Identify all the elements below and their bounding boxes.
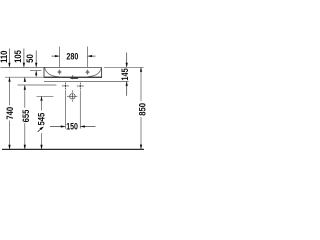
svg-text:105: 105	[13, 50, 24, 63]
svg-text:740: 740	[4, 107, 15, 120]
svg-text:110: 110	[0, 50, 9, 63]
svg-text:280: 280	[66, 52, 78, 62]
svg-text:545: 545	[36, 112, 47, 125]
svg-text:150: 150	[66, 122, 78, 132]
svg-text:655: 655	[21, 109, 32, 122]
svg-text:850: 850	[137, 103, 148, 116]
svg-text:145: 145	[121, 68, 131, 81]
svg-text:50: 50	[24, 54, 35, 63]
